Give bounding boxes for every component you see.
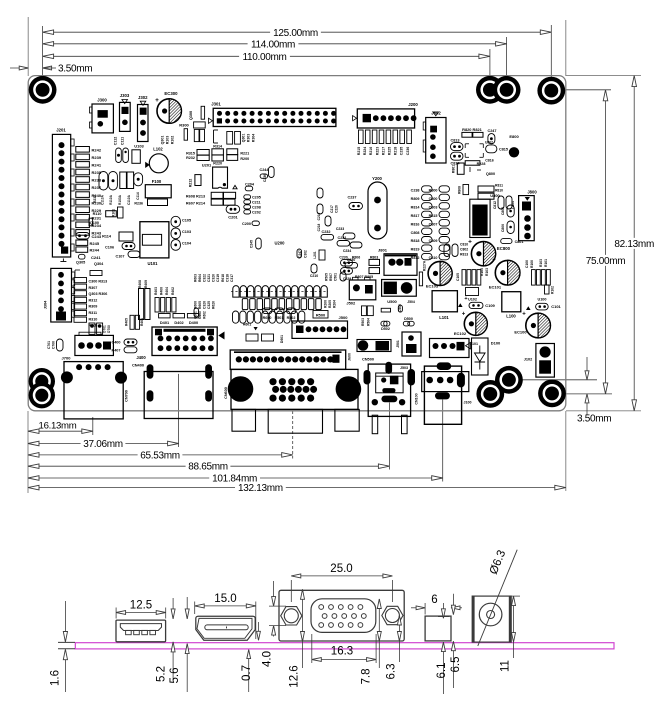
capacitors R807 R805 [341, 259, 380, 278]
svg-text:R220: R220 [213, 161, 222, 165]
svg-text:EC102: EC102 [454, 331, 467, 336]
svg-text:R307: R307 [89, 286, 98, 290]
mounting hole top-left [29, 76, 57, 104]
transistor Q300 [189, 106, 205, 120]
extension line from hole at 114mm [506, 37, 508, 78]
dimension 4.0 [262, 581, 287, 667]
svg-text:C210: C210 [310, 274, 318, 278]
svg-text:J200: J200 [408, 102, 418, 107]
svg-text:16.3: 16.3 [331, 646, 353, 658]
bracket below J301 [214, 130, 219, 143]
svg-text:C218: C218 [317, 223, 321, 231]
extension line from hole at 125mm [550, 25, 552, 78]
svg-text:J400: J400 [136, 355, 146, 360]
capacitor C245 [250, 238, 262, 249]
pill row 3 [233, 311, 305, 323]
dimension 7.8 [361, 599, 382, 685]
svg-text:C247: C247 [487, 129, 496, 133]
capacitor column labels [411, 189, 438, 261]
svg-text:37.06mm: 37.06mm [83, 439, 123, 450]
pcb side profile (pink) [75, 643, 614, 649]
resistor R801 [452, 163, 465, 174]
svg-text:J600: J600 [348, 353, 352, 361]
svg-text:U100: U100 [537, 298, 546, 302]
capacitors C105 C103 C104 [171, 216, 192, 250]
dimension 125.00mm [43, 28, 552, 39]
svg-text:C201: C201 [228, 214, 238, 219]
svg-text:R218: R218 [394, 147, 398, 155]
reference line bottom hole to right [556, 393, 612, 395]
svg-text:R103: R103 [539, 259, 543, 267]
mounting hole 110mm [476, 76, 521, 104]
IC U101 [140, 222, 169, 266]
svg-text:6.5: 6.5 [450, 657, 462, 673]
resistor cluster R221 R200 [227, 149, 249, 161]
svg-text:R501: R501 [275, 316, 284, 320]
svg-text:6: 6 [431, 594, 437, 606]
resistor R212 [188, 175, 201, 188]
dimension 12.6 [289, 589, 305, 687]
capacitors C701 C700 [47, 339, 63, 351]
resistor column R242-R243 [76, 147, 102, 236]
J503 legs [372, 415, 407, 434]
svg-text:R233: R233 [93, 195, 97, 203]
svg-text:R245: R245 [90, 241, 100, 246]
svg-text:CN600: CN600 [224, 387, 228, 399]
svg-text:C244: C244 [259, 168, 269, 172]
svg-text:R817: R817 [411, 214, 420, 218]
dimension 132.13mm [28, 483, 566, 494]
capacitors C247r C302 [297, 249, 308, 258]
svg-text:C245: C245 [250, 240, 254, 248]
svg-text:R810: R810 [495, 189, 503, 193]
capacitor EC103 [426, 261, 452, 288]
svg-text:5.6: 5.6 [169, 668, 181, 684]
CN600 center extension [292, 411, 294, 459]
resistor R244 [76, 247, 100, 253]
dimension 3.50mm top-left [10, 64, 92, 75]
svg-text:C106: C106 [105, 246, 114, 250]
svg-text:D502: D502 [381, 327, 390, 331]
svg-text:J801: J801 [378, 248, 388, 253]
svg-text:82.13mm: 82.13mm [614, 239, 654, 250]
capacitor EC300 [155, 91, 181, 123]
power jack J100 [415, 362, 472, 424]
svg-text:D701: D701 [103, 325, 107, 333]
svg-text:110.00mm: 110.00mm [242, 52, 286, 63]
svg-text:EC101: EC101 [489, 284, 502, 289]
connector J101 [430, 339, 479, 358]
capacitors C112 C111 [114, 137, 129, 163]
extension line from top-left hole center [42, 26, 44, 77]
resistor pack R100 [525, 259, 555, 302]
rotated label cluster lower [194, 301, 216, 309]
svg-text:R303: R303 [247, 134, 251, 142]
svg-text:R310: R310 [89, 317, 98, 321]
capacitor EC800 [468, 239, 511, 266]
rotated label cluster upper [194, 274, 234, 282]
transistor Q100 [89, 218, 99, 226]
connector J303 [120, 93, 131, 131]
svg-text:C113A: C113A [101, 194, 105, 204]
svg-text:3.50mm: 3.50mm [58, 64, 92, 75]
connector J304 [44, 268, 75, 322]
inductor L100 [502, 292, 521, 319]
svg-text:4.0: 4.0 [262, 651, 274, 667]
svg-text:R816: R816 [411, 222, 420, 226]
svg-text:C101: C101 [551, 304, 561, 309]
svg-text:65.53mm: 65.53mm [140, 450, 180, 461]
resistors R600 R501 R502 [263, 308, 297, 320]
svg-text:R227A: R227A [423, 260, 427, 271]
connector J802 [423, 111, 446, 164]
svg-text:D400: D400 [189, 320, 198, 325]
svg-text:R407: R407 [111, 349, 120, 353]
capacitor cluster left of F100 [93, 172, 143, 205]
svg-text:C806: C806 [501, 224, 505, 232]
capacitor C241 [79, 254, 102, 260]
svg-text:R620: R620 [212, 301, 216, 309]
svg-text:R406: R406 [160, 287, 164, 295]
svg-text:Q100: Q100 [90, 221, 99, 225]
svg-text:R607 R214: R607 R214 [186, 201, 206, 205]
IC U501 [357, 340, 391, 352]
VGA CN600 [224, 369, 361, 409]
svg-text:C302: C302 [304, 250, 308, 258]
svg-text:125.00mm: 125.00mm [273, 28, 318, 39]
IC U103 [132, 144, 145, 164]
diodes D401 D402 D400 [159, 314, 199, 326]
crystal Y200 [368, 176, 387, 239]
VGA screw right [382, 606, 403, 624]
svg-text:C204: C204 [245, 182, 255, 186]
svg-text:R215: R215 [357, 147, 361, 155]
connector J201 [52, 128, 74, 258]
capacitor C801 [501, 239, 524, 244]
dimension 15.0 HDMI [195, 593, 256, 639]
svg-text:R809: R809 [411, 197, 420, 201]
svg-text:R314: R314 [213, 144, 223, 148]
svg-text:16.13mm: 16.13mm [39, 420, 77, 431]
svg-text:R814: R814 [411, 205, 421, 209]
svg-text:R102: R102 [171, 136, 175, 145]
labels right of rows [324, 273, 338, 308]
svg-text:25.0: 25.0 [330, 563, 352, 575]
svg-text:C805: C805 [501, 207, 505, 215]
dimension 0.7 [241, 622, 260, 692]
svg-text:R315: R315 [186, 152, 195, 156]
svg-text:C815: C815 [499, 148, 508, 152]
svg-text:U200: U200 [274, 241, 285, 246]
svg-text:R238: R238 [92, 178, 102, 183]
capacitor EC101 [489, 258, 520, 290]
svg-text:C810: C810 [429, 256, 438, 260]
triangle mark near U201 [233, 185, 237, 188]
connector J400 [136, 327, 224, 360]
extension line from left board edge (top) [27, 17, 29, 76]
resistor R101b [112, 207, 124, 218]
svg-text:88.65mm: 88.65mm [188, 462, 228, 473]
svg-text:CN400: CN400 [132, 363, 144, 368]
svg-text:R103A: R103A [118, 194, 122, 205]
capacitor C101 [536, 303, 562, 310]
svg-text:R811: R811 [495, 184, 503, 188]
svg-text:11: 11 [500, 660, 512, 672]
svg-text:U102: U102 [468, 298, 477, 302]
svg-text:C816: C816 [485, 159, 494, 163]
resistor R236 [134, 199, 167, 206]
svg-text:R236: R236 [134, 202, 143, 206]
resistor cluster R315 R232 [186, 150, 209, 161]
resistor cluster R314 R220 [212, 144, 224, 165]
svg-text:+: + [462, 312, 466, 318]
connector J102 [524, 344, 555, 378]
board outline [28, 76, 566, 411]
triangle mark 2 [526, 306, 531, 310]
connector CN700 [61, 362, 129, 419]
IC U200 [274, 241, 285, 246]
VGA screw left [281, 607, 302, 625]
svg-text:L100: L100 [506, 314, 516, 319]
svg-text:12.6: 12.6 [289, 665, 301, 687]
svg-text:C107: C107 [115, 255, 124, 259]
svg-text:C236: C236 [263, 174, 267, 182]
diode D601 area [243, 323, 284, 344]
HDMI connector side [196, 616, 255, 640]
svg-text:C109: C109 [485, 303, 495, 308]
svg-text:C111: C111 [121, 137, 125, 145]
svg-text:R114: R114 [102, 235, 112, 239]
svg-text:+: + [522, 312, 526, 318]
svg-text:Q304: Q304 [94, 262, 104, 266]
connector J300 [90, 98, 114, 133]
connector J502 [346, 277, 375, 305]
svg-text:CN100: CN100 [415, 393, 419, 404]
svg-text:C319: C319 [216, 274, 220, 282]
svg-text:J302: J302 [138, 95, 148, 100]
IC U802 dashed outline [465, 144, 483, 158]
svg-text:U800: U800 [490, 193, 500, 198]
capacitor C237 [347, 195, 362, 209]
svg-text:J300: J300 [97, 98, 107, 103]
svg-text:Q305: Q305 [76, 261, 85, 265]
svg-text:Q300: Q300 [189, 111, 193, 120]
dimension 37.06mm [28, 439, 179, 450]
IC U201 [202, 162, 228, 188]
svg-text:R800: R800 [429, 189, 438, 193]
capacitor C247 [487, 129, 496, 144]
svg-text:C325: C325 [207, 301, 211, 309]
J503 center extension [388, 403, 390, 470]
svg-text:J100: J100 [464, 401, 472, 405]
svg-text:R602: R602 [203, 311, 207, 319]
resistor R114 [102, 232, 133, 241]
svg-text:R605: R605 [198, 301, 202, 309]
connector J501 [396, 332, 421, 356]
svg-text:R241: R241 [92, 163, 102, 168]
capacitor C201 [226, 205, 240, 219]
capacitor C210 [310, 264, 318, 278]
svg-text:15.0: 15.0 [214, 593, 236, 605]
svg-text:R608 R213: R608 R213 [186, 195, 205, 199]
header J301 [209, 102, 337, 127]
diameter leader line [478, 550, 517, 646]
svg-text:R103: R103 [166, 136, 170, 145]
mounting hole bottom-left pair [29, 368, 55, 408]
transistor Q304 [94, 262, 104, 266]
board top edge extension right [566, 75, 641, 77]
svg-text:R801: R801 [452, 165, 456, 173]
svg-text:+: + [468, 239, 472, 246]
dimension 5.6 [169, 597, 189, 692]
svg-text:C105: C105 [456, 273, 460, 281]
diodes D500 [403, 317, 414, 326]
mounting hole 125mm [537, 77, 565, 105]
boxed label R500 [313, 311, 328, 319]
svg-text:R205: R205 [328, 300, 332, 308]
svg-text:R228: R228 [477, 162, 486, 166]
svg-text:CN500: CN500 [362, 357, 374, 362]
svg-text:C229: C229 [343, 277, 351, 281]
inductor L102 [145, 147, 168, 173]
svg-text:R603: R603 [194, 274, 198, 282]
svg-text:R110A: R110A [109, 194, 113, 204]
capacitor C231 [337, 236, 350, 246]
svg-text:U101: U101 [147, 261, 158, 266]
resistor R228 [465, 159, 494, 166]
dimension 6.1 [436, 603, 450, 694]
svg-text:R200: R200 [240, 157, 249, 161]
svg-text:C208: C208 [252, 206, 261, 210]
svg-text:C100: C100 [525, 260, 529, 268]
dimension 88.65mm [28, 462, 389, 473]
bullet pill row [231, 286, 328, 297]
reference line top holes to right [563, 89, 611, 91]
svg-text:C230: C230 [347, 258, 356, 262]
svg-text:C813: C813 [450, 139, 459, 143]
svg-text:Q301: Q301 [242, 134, 246, 143]
svg-text:R232: R232 [186, 156, 195, 160]
svg-text:J504: J504 [407, 300, 415, 304]
svg-text:Ø6.3: Ø6.3 [488, 549, 508, 577]
svg-text:CN700: CN700 [125, 390, 129, 402]
svg-text:C233: C233 [336, 227, 344, 231]
DC jack side [472, 596, 511, 642]
svg-text:R507: R507 [329, 273, 333, 281]
VGA connector side flange [279, 590, 404, 641]
svg-text:0.7: 0.7 [241, 665, 253, 681]
svg-text:R217: R217 [381, 147, 385, 155]
svg-text:C501: C501 [334, 273, 338, 281]
capacitor column pair block [422, 186, 450, 260]
svg-text:R803: R803 [370, 255, 378, 259]
dimension 65.53mm [28, 450, 293, 461]
svg-text:R502: R502 [287, 316, 296, 320]
svg-text:C205: C205 [252, 196, 261, 200]
dimension 25.0 VGA [291, 563, 392, 602]
svg-text:J503: J503 [400, 366, 408, 370]
connector J801 [378, 248, 417, 276]
svg-text:D402: D402 [174, 320, 184, 325]
capacitor C815 [485, 141, 508, 153]
svg-text:C226: C226 [335, 205, 339, 213]
svg-text:L201: L201 [313, 251, 317, 258]
capacitor C814 [450, 152, 463, 165]
capacitors C216 C218 [317, 188, 339, 231]
svg-text:C810: C810 [460, 242, 468, 246]
svg-text:R813: R813 [460, 253, 468, 257]
svg-text:R204: R204 [333, 300, 337, 308]
svg-text:C326: C326 [203, 301, 207, 309]
capacitor C244 [259, 168, 269, 178]
svg-text:J301: J301 [211, 102, 221, 107]
dimension 75.00mm [586, 90, 626, 394]
svg-text:R304: R304 [252, 134, 256, 142]
svg-text:C241: C241 [91, 255, 101, 260]
resistor pack R103 [456, 268, 489, 285]
svg-text:R110: R110 [93, 212, 102, 216]
svg-text:C231: C231 [337, 236, 346, 240]
rect row 2 [242, 299, 321, 310]
svg-text:+: + [492, 258, 496, 264]
dimension 16.3 VGA [312, 634, 376, 663]
svg-text:+: + [155, 97, 159, 104]
capacitor stack C205 C211 C208 C202 [244, 195, 261, 215]
resistors R820 R821 [462, 127, 483, 137]
svg-text:12.5: 12.5 [130, 600, 152, 612]
svg-text:C400: C400 [111, 341, 120, 345]
AV jack J503 [364, 362, 416, 417]
svg-text:J102: J102 [524, 358, 532, 362]
svg-text:+: + [464, 296, 467, 302]
svg-text:R103: R103 [485, 268, 489, 276]
connector J800 [519, 190, 538, 241]
svg-text:EC100: EC100 [514, 330, 527, 335]
dimension 5.2 [156, 598, 176, 682]
svg-text:C211: C211 [252, 201, 261, 205]
J100 center extension [442, 400, 444, 482]
dimension 110.00mm [43, 52, 490, 63]
dimension 3.50mm bottom-right [577, 357, 611, 425]
capacitor C107 [115, 251, 140, 259]
svg-text:R815: R815 [429, 214, 438, 218]
inductor L101 [432, 291, 457, 320]
resistor R245 [76, 240, 100, 246]
dimension 82.13mm [614, 76, 654, 411]
transistor Q800 [470, 167, 495, 176]
resistors R408 R409 [138, 280, 150, 320]
capacitor C229 [340, 272, 351, 281]
svg-text:EC300: EC300 [164, 91, 178, 96]
svg-text:L101: L101 [439, 315, 449, 320]
svg-text:C238: C238 [411, 189, 420, 193]
connector J700 [62, 332, 114, 360]
svg-text:C803: C803 [429, 205, 438, 209]
resistor column C300-R308 [74, 278, 107, 328]
capacitor EC102 [454, 312, 487, 337]
triangle mark 1 [458, 303, 463, 307]
svg-text:R819: R819 [411, 248, 420, 252]
svg-text:R216: R216 [369, 147, 373, 155]
svg-text:R820 R821: R820 R821 [462, 127, 483, 132]
svg-text:R225: R225 [388, 147, 392, 155]
svg-text:R312: R312 [89, 298, 98, 302]
svg-text:Q303 R306: Q303 R306 [89, 292, 108, 296]
svg-text:R244: R244 [90, 248, 100, 253]
svg-text:C202: C202 [252, 211, 261, 215]
svg-text:R409: R409 [144, 280, 148, 288]
label diameter 6.3 [488, 549, 508, 577]
